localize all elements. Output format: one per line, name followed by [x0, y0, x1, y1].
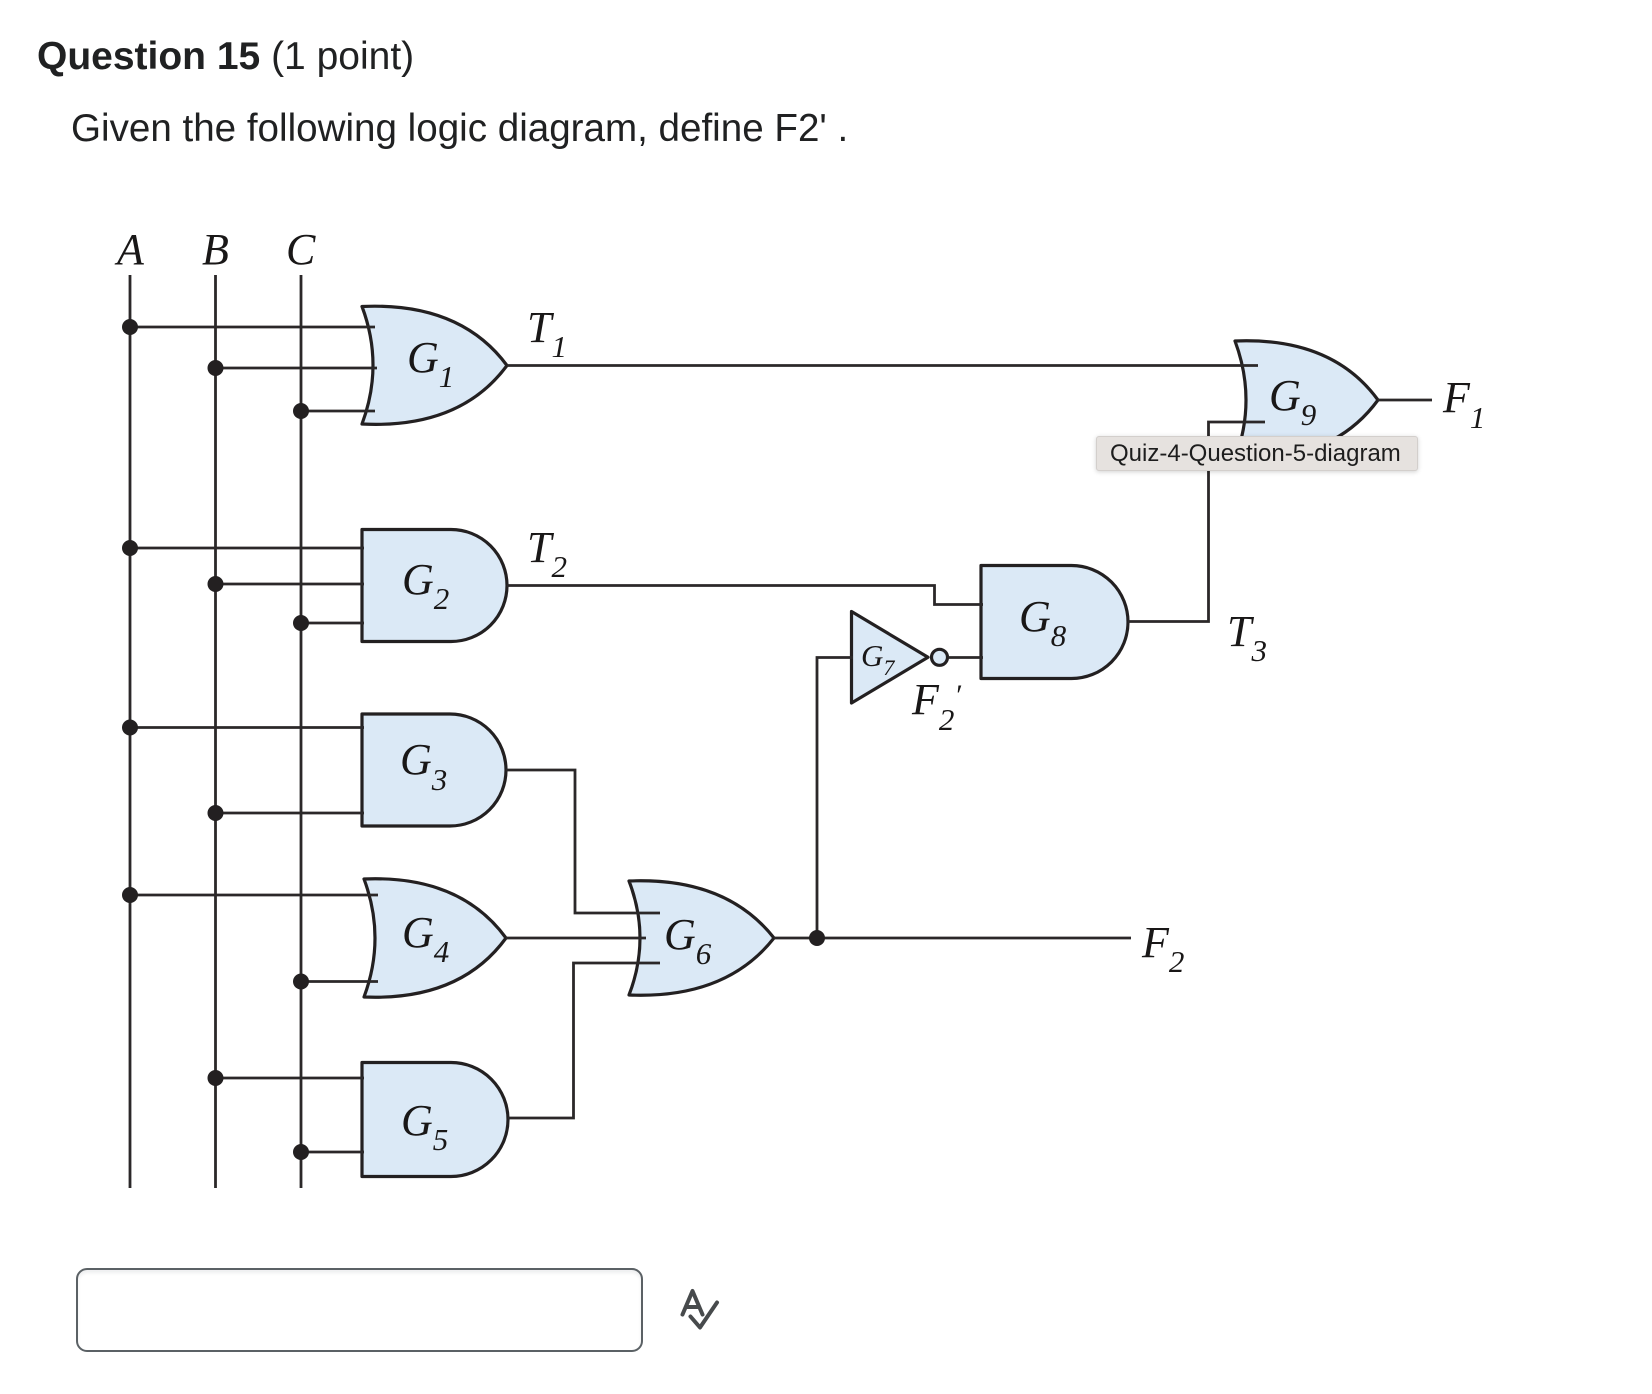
- wire A to G4: [130, 894, 378, 897]
- input bus B: [214, 275, 217, 1188]
- svg-text:F1: F1: [1442, 373, 1485, 435]
- svg-text:B: B: [202, 225, 229, 274]
- junction B-G2: [208, 576, 224, 592]
- wire F1 output: [1378, 399, 1432, 402]
- wire T2 G2 to G8: [507, 586, 983, 605]
- spellcheck icon: [670, 1282, 730, 1342]
- input bus C: [300, 275, 303, 1188]
- and-gate G8: [981, 566, 1128, 679]
- or-gate G1: [362, 306, 507, 424]
- wire T3 G8 to G9: [1128, 422, 1265, 622]
- junction B-G3: [208, 805, 224, 821]
- wire F2 to G7: [817, 658, 853, 939]
- and-gate G3: [362, 714, 506, 826]
- junction B-G5: [208, 1070, 224, 1086]
- wire C to G4: [301, 980, 378, 983]
- junction C-G2: [293, 615, 309, 631]
- icon checkmark: [691, 1303, 718, 1328]
- svg-text:A: A: [114, 225, 145, 274]
- svg-text:T3: T3: [1227, 607, 1267, 668]
- wire G7 to G8: [948, 656, 983, 659]
- wire G4 to G6: [506, 937, 646, 940]
- and-gate G5: [362, 1063, 508, 1177]
- or-gate G6: [629, 881, 774, 995]
- input bus A: [129, 275, 132, 1188]
- or-gate G4: [364, 879, 506, 997]
- wire B to G1: [216, 367, 378, 370]
- svg-text:F2: F2: [1141, 918, 1184, 979]
- junction F2 node: [809, 930, 825, 946]
- junction A-G3: [122, 720, 138, 736]
- tooltip Quiz-4-Question-5-diagram: [1096, 436, 1418, 471]
- wire A to G3: [130, 726, 364, 729]
- svg-text:T1: T1: [527, 303, 567, 364]
- wire C to G5: [301, 1151, 364, 1154]
- svg-text:F2′: F2′: [911, 675, 961, 737]
- junction C-G5: [293, 1144, 309, 1160]
- junction A-G4: [122, 887, 138, 903]
- junction B-G1: [208, 360, 224, 376]
- junction A-G2: [122, 540, 138, 556]
- question text: [71, 107, 848, 151]
- inverter bubble G7: [932, 649, 948, 665]
- junction C-G4: [293, 974, 309, 990]
- question header: [37, 35, 414, 79]
- answer input box: [76, 1268, 643, 1352]
- and-gate G2: [362, 530, 507, 642]
- wire B to G3: [216, 812, 365, 815]
- junction A-G1: [122, 319, 138, 335]
- wire C to G1: [301, 410, 375, 413]
- or-gate G9: [1235, 341, 1378, 459]
- wire A to G2: [130, 547, 364, 550]
- svg-text:T2: T2: [527, 523, 567, 584]
- inverter G7: [852, 612, 929, 704]
- wire C to G2: [301, 622, 364, 625]
- wire A to G1: [130, 326, 375, 329]
- wire G3 to G6: [506, 770, 660, 913]
- junction C-G1: [293, 403, 309, 419]
- wire F2 output: [774, 937, 1131, 940]
- wire B to G2: [216, 583, 365, 586]
- wire G5 to G6: [508, 963, 660, 1118]
- icon letter A: [683, 1291, 703, 1315]
- wire T1 G1 to G9: [507, 364, 1258, 367]
- svg-text:C: C: [286, 225, 316, 274]
- wire B to G5: [216, 1077, 365, 1080]
